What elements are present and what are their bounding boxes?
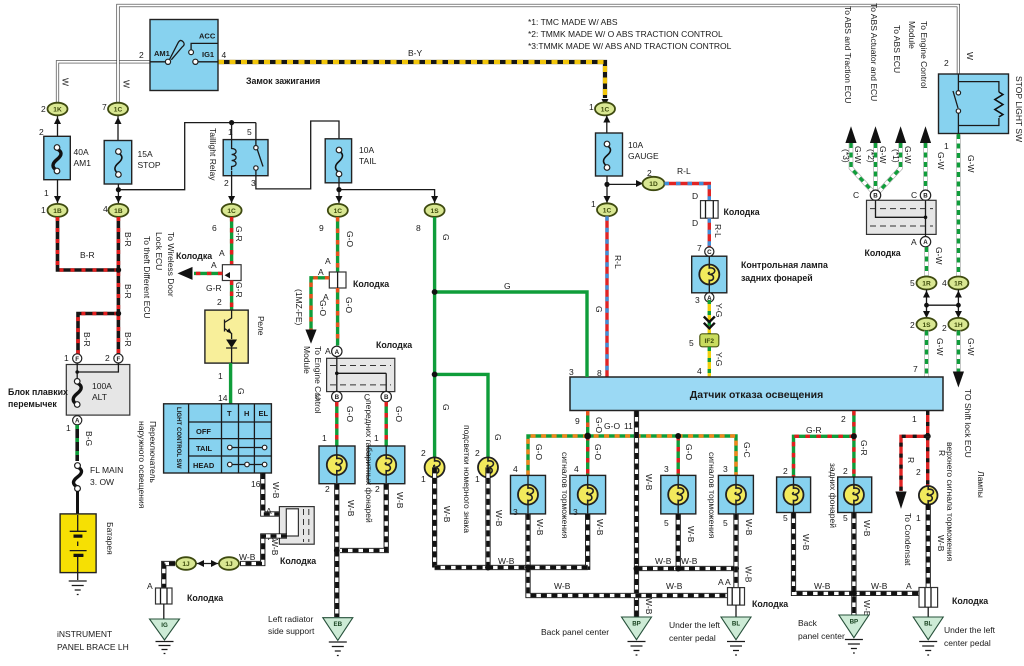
svg-text:B-R: B-R — [82, 332, 92, 347]
wire W-B license lamp2 — [485, 467, 490, 567]
svg-text:4: 4 — [222, 50, 227, 60]
svg-text:G-O: G-O — [593, 444, 603, 460]
kolodka (engine) — [329, 272, 389, 289]
svg-text:3: 3 — [723, 464, 728, 474]
light control switch — [164, 404, 272, 473]
wire G-R 1C6 to kolodka — [230, 217, 233, 265]
wire W-B bus license lamps — [435, 565, 588, 570]
wire G to license lamp1 — [433, 374, 436, 457]
svg-text:1: 1 — [912, 414, 917, 424]
ground EB — [323, 618, 353, 656]
svg-text:W-B: W-B — [681, 556, 698, 566]
svg-text:Back panel center: Back panel center — [541, 627, 609, 637]
svg-text:40A: 40A — [74, 147, 89, 157]
svg-text:2: 2 — [325, 484, 330, 494]
svg-text:EL: EL — [259, 409, 269, 418]
svg-text:G-R: G-R — [859, 440, 869, 456]
svg-text:R-L: R-L — [677, 166, 691, 176]
wire G-O 1C9 down — [336, 217, 339, 272]
svg-text:10A: 10A — [359, 145, 374, 155]
svg-text:6: 6 — [212, 223, 217, 233]
svg-text:16: 16 — [251, 479, 261, 489]
connector 1S pin2 — [910, 318, 937, 331]
svg-text:2: 2 — [647, 168, 652, 178]
svg-text:R: R — [906, 457, 916, 463]
svg-text:1C: 1C — [227, 208, 236, 215]
to-ECU arrows — [845, 126, 856, 143]
svg-text:G-O: G-O — [684, 444, 694, 460]
svg-text:panel center: panel center — [798, 631, 845, 641]
svg-text:Under the left: Under the left — [944, 625, 996, 635]
svg-text:1: 1 — [944, 141, 949, 151]
wire W-B rear lamp1 to bus — [794, 513, 920, 594]
wire W-B rear lamp2 to BP — [851, 513, 856, 616]
svg-text:W-B: W-B — [862, 520, 872, 537]
svg-text:G-R: G-R — [806, 425, 822, 435]
connector 1D — [643, 168, 665, 190]
fuse 10A TAIL — [325, 139, 376, 183]
svg-text:W-B: W-B — [271, 482, 281, 499]
svg-text:1D: 1D — [649, 181, 658, 188]
svg-text:W-B: W-B — [346, 500, 356, 517]
svg-text:G: G — [594, 306, 604, 313]
svg-text:G-C: G-C — [742, 442, 752, 458]
license plate lamp 1 — [421, 448, 445, 484]
svg-text:1H: 1H — [954, 322, 963, 329]
svg-text:G-W: G-W — [878, 146, 888, 163]
svg-text:Back: Back — [798, 618, 818, 628]
svg-text:Under the left: Under the left — [669, 620, 721, 630]
wire Y-G lamp to IF2 — [708, 300, 711, 334]
svg-text:R-L: R-L — [713, 224, 723, 238]
svg-text:1B: 1B — [114, 208, 123, 215]
wire G-R sensor pin2 — [852, 411, 855, 436]
svg-text:перемычек: перемычек — [8, 399, 57, 409]
svg-text:To Condensat: To Condensat — [903, 513, 913, 566]
svg-text:(*2): (*2) — [866, 149, 876, 163]
wire G 1S down — [433, 217, 436, 292]
svg-text:(1MZ-FE): (1MZ-FE) — [294, 289, 304, 326]
F pins — [73, 354, 82, 363]
svg-text:5: 5 — [843, 513, 848, 523]
svg-text:EB: EB — [333, 621, 342, 628]
svg-text:W-B: W-B — [686, 526, 696, 543]
svg-text:G-R: G-R — [206, 283, 222, 293]
svg-text:G: G — [441, 234, 451, 241]
svg-text:подсветки номерного знака: подсветки номерного знака — [462, 425, 472, 533]
svg-text:W-B: W-B — [595, 519, 605, 536]
svg-text:1: 1 — [421, 474, 426, 484]
svg-text:G-W: G-W — [966, 338, 976, 355]
connector 1C pin6 — [212, 204, 242, 233]
svg-text:H: H — [244, 409, 249, 418]
svg-text:G-O: G-O — [594, 417, 604, 433]
connector 1B pin4 — [103, 204, 128, 217]
kolodka (instrument) — [156, 588, 224, 604]
svg-text:Колодка: Колодка — [176, 251, 212, 261]
svg-text:1: 1 — [218, 371, 223, 381]
GAUGE out node to 1D — [607, 176, 640, 203]
wire W-B front lamp1 — [334, 484, 339, 551]
svg-text:передних габаритных фонарей: передних габаритных фонарей — [364, 400, 374, 523]
wire G-R to rear lamp1 — [794, 436, 854, 477]
wire G-W stop sw to 1R — [956, 134, 961, 277]
wire G-W arrow1 — [851, 143, 873, 192]
svg-text:Лампы: Лампы — [976, 471, 986, 498]
svg-text:5: 5 — [723, 518, 728, 528]
svg-text:1R: 1R — [922, 281, 931, 288]
svg-text:2: 2 — [375, 484, 380, 494]
svg-text:сигналов торможения: сигналов торможения — [560, 452, 570, 539]
wire B-G — [75, 425, 79, 461]
connector 1C pin9 — [319, 204, 348, 233]
wire W-B brake lamp4 to kolodka — [733, 514, 738, 588]
svg-text:1J: 1J — [225, 561, 233, 568]
B-Y to 1C pin1 — [589, 102, 615, 115]
svg-text:Left radiator: Left radiator — [268, 614, 314, 624]
wire G-R to rear lamp2 — [852, 436, 855, 477]
wire B-R 1B1 — [58, 217, 117, 270]
svg-text:5: 5 — [664, 518, 669, 528]
wire G-R kolodka to Pene — [230, 281, 233, 311]
kolodka (BL2) — [919, 588, 988, 608]
svg-text:B-R: B-R — [123, 332, 133, 347]
svg-text:D: D — [692, 218, 698, 228]
connector 1C pin7 — [102, 102, 128, 140]
svg-text:1: 1 — [66, 423, 71, 433]
rear lamp 1 — [777, 466, 811, 523]
svg-text:R-L: R-L — [613, 255, 623, 269]
wire G-W 1S to sensor pin7 — [924, 331, 929, 378]
svg-text:G-O: G-O — [394, 406, 404, 422]
svg-text:A: A — [325, 256, 331, 266]
svg-text:W-B: W-B — [498, 556, 515, 566]
svg-text:G-O: G-O — [345, 231, 355, 247]
wire W-B stop lamp to kolodka — [926, 504, 931, 588]
wire G-W arrow4 — [923, 143, 928, 190]
ground BL1 — [721, 617, 751, 655]
svg-text:W-B: W-B — [744, 519, 754, 536]
svg-text:Y-G: Y-G — [714, 303, 724, 317]
svg-text:G-R: G-R — [234, 226, 244, 242]
wire G-W arrow2 — [873, 143, 878, 190]
kolodka A (wireless) — [176, 251, 241, 281]
svg-text:1: 1 — [44, 188, 49, 198]
svg-text:B: B — [335, 394, 340, 401]
svg-text:2: 2 — [139, 50, 144, 60]
svg-text:A: A — [147, 581, 153, 591]
fusible link FL MAIN — [74, 463, 124, 492]
svg-text:STOP LIGHT SW: STOP LIGHT SW — [1014, 76, 1024, 142]
svg-text:1B: 1B — [53, 208, 62, 215]
svg-text:(*3): (*3) — [841, 149, 851, 163]
wire G branch to sensor pin3 — [435, 292, 587, 377]
svg-text:Переключатель: Переключатель — [148, 421, 158, 483]
svg-text:Y-G: Y-G — [714, 352, 724, 366]
svg-text:A: A — [725, 577, 731, 587]
svg-text:To ABS Actuator and ECU: To ABS Actuator and ECU — [869, 3, 879, 101]
svg-text:PANEL BRACE LH: PANEL BRACE LH — [57, 642, 129, 652]
wire fuse AM1 to 1B — [57, 180, 59, 203]
wire W-B brake lamp1 to bus B — [528, 514, 729, 596]
svg-text:Колодка: Колодка — [724, 207, 760, 217]
wire W-B brake lamp2 — [528, 514, 588, 567]
svg-text:2: 2 — [783, 466, 788, 476]
svg-text:W-B: W-B — [535, 519, 545, 536]
svg-text:1K: 1K — [53, 107, 62, 114]
svg-text:To theft Different ECU: To theft Different ECU — [142, 236, 152, 319]
svg-text:задних фонарей: задних фонарей — [741, 273, 813, 283]
svg-text:2: 2 — [217, 297, 222, 307]
connector 1R pin5 — [910, 277, 937, 290]
svg-text:1C: 1C — [601, 107, 610, 114]
wire G-W arrow3 — [879, 143, 901, 192]
svg-text:A: A — [325, 346, 331, 356]
svg-text:2: 2 — [41, 104, 46, 114]
svg-text:G-W: G-W — [966, 155, 976, 172]
wire B-R branch to F1 — [78, 314, 118, 355]
svg-text:2: 2 — [942, 323, 947, 333]
big kolodka (front lamps) — [315, 340, 412, 402]
taillight relay — [208, 123, 268, 188]
brake lamp 4 — [718, 464, 753, 528]
svg-text:Блок плавких: Блок плавких — [8, 387, 68, 397]
svg-text:Контрольная лампа: Контрольная лампа — [741, 260, 828, 270]
svg-text:W: W — [61, 78, 71, 86]
svg-text:W-B: W-B — [666, 581, 683, 591]
svg-text:Реле: Реле — [256, 316, 266, 336]
wire G-O kolodka to A — [336, 288, 339, 346]
svg-text:C: C — [707, 249, 712, 256]
svg-text:7: 7 — [697, 243, 702, 253]
wire G-O B1 to front lamp1 — [335, 402, 338, 446]
svg-text:W-B: W-B — [270, 539, 280, 556]
svg-text:3: 3 — [569, 367, 574, 377]
svg-text:ALT: ALT — [92, 392, 107, 402]
svg-text:G-O: G-O — [604, 421, 620, 431]
svg-text:1S: 1S — [431, 208, 440, 215]
svg-text:1: 1 — [41, 205, 46, 215]
wire W-B 1J to kolodka IG — [164, 564, 175, 589]
svg-text:G: G — [493, 434, 503, 441]
svg-text:наружного освещения: наружного освещения — [137, 421, 147, 509]
wire R-L kolodka to lamp — [708, 218, 711, 247]
svg-text:1R: 1R — [954, 281, 963, 288]
svg-text:4: 4 — [942, 278, 947, 288]
svg-text:C: C — [911, 190, 917, 200]
wire G-O sensor pin9 — [586, 411, 589, 436]
svg-text:5: 5 — [783, 513, 788, 523]
battery — [60, 491, 115, 595]
A pin — [332, 346, 342, 356]
svg-text:W-B: W-B — [239, 552, 256, 562]
svg-text:3: 3 — [573, 507, 578, 517]
svg-text:(*1): (*1) — [891, 149, 901, 163]
kolodka right — [853, 190, 936, 258]
wire G-O bus — [528, 436, 736, 475]
svg-text:HEAD: HEAD — [193, 461, 215, 470]
svg-text:STOP: STOP — [138, 160, 161, 170]
svg-text:Module: Module — [302, 346, 312, 374]
high mount stop lamp — [916, 486, 938, 523]
svg-text:W: W — [122, 80, 132, 88]
svg-text:9: 9 — [319, 223, 324, 233]
svg-text:сигналов торможения: сигналов торможения — [707, 452, 717, 539]
svg-text:3: 3 — [513, 507, 518, 517]
wire G-W kolodka to 1R — [924, 247, 929, 277]
svg-text:To Engine Control: To Engine Control — [919, 21, 929, 89]
node under STOP fuse — [118, 123, 256, 203]
svg-text:B-Y: B-Y — [408, 48, 423, 58]
ground BL2 — [913, 617, 943, 655]
svg-text:100A: 100A — [92, 381, 112, 391]
wire W (1C to stop light sw) — [118, 6, 958, 105]
svg-text:8: 8 — [416, 223, 421, 233]
connector 1S pin8 — [416, 204, 445, 233]
svg-text:Колодка: Колодка — [376, 340, 412, 350]
svg-text:1: 1 — [591, 199, 596, 209]
svg-text:Колодка: Колодка — [353, 279, 389, 289]
svg-text:A: A — [211, 260, 217, 270]
svg-text:C: C — [853, 190, 859, 200]
stop light switch — [939, 58, 1024, 142]
svg-text:G-W: G-W — [936, 152, 946, 169]
svg-text:1: 1 — [916, 513, 921, 523]
svg-text:OFF: OFF — [196, 427, 211, 436]
svg-text:F: F — [117, 356, 121, 363]
svg-text:2: 2 — [916, 467, 921, 477]
svg-text:2: 2 — [421, 448, 426, 458]
A pin — [705, 293, 714, 302]
svg-text:side support: side support — [268, 626, 315, 636]
svg-text:7: 7 — [913, 364, 918, 374]
svg-text:1S: 1S — [922, 322, 931, 329]
svg-text:2: 2 — [910, 320, 915, 330]
svg-text:IF2: IF2 — [705, 338, 715, 345]
svg-text:4: 4 — [697, 366, 702, 376]
svg-text:FL MAIN: FL MAIN — [90, 465, 123, 475]
svg-text:GAUGE: GAUGE — [628, 151, 659, 161]
connector 1B pin1 — [41, 188, 68, 217]
svg-text:4: 4 — [103, 204, 108, 214]
svg-text:BL: BL — [732, 621, 740, 628]
svg-text:Батарея: Батарея — [105, 522, 115, 555]
svg-text:Lock ECU: Lock ECU — [154, 232, 164, 270]
svg-text:1C: 1C — [114, 107, 123, 114]
svg-text:To ABS ECU: To ABS ECU — [892, 25, 902, 73]
svg-text:C: C — [315, 392, 321, 402]
brake lamp 2 — [570, 464, 606, 517]
svg-text:G-W: G-W — [935, 338, 945, 355]
svg-text:Module: Module — [907, 21, 917, 49]
wire R-L 1D to kolodka D — [665, 184, 710, 201]
svg-text:BL: BL — [924, 621, 932, 628]
ignition switch (Замок зажигания) — [150, 20, 218, 91]
svg-text:Колодка: Колодка — [952, 596, 988, 606]
svg-text:G-O: G-O — [318, 300, 328, 316]
wire R sensor pin1 — [926, 411, 929, 436]
svg-text:G-O: G-O — [345, 406, 355, 422]
svg-text:A: A — [923, 239, 928, 246]
svg-text:4: 4 — [574, 464, 579, 474]
front side lamp 2 — [368, 446, 405, 494]
svg-text:9: 9 — [575, 416, 580, 426]
wire W (1K to ignition AM1) — [58, 62, 151, 104]
brake lamp 1 — [511, 464, 546, 517]
TAIL fuse out node — [339, 176, 435, 203]
1C to GAUGE fuse — [606, 115, 608, 135]
svg-text:B-R: B-R — [123, 284, 133, 299]
wire G-R to arrow left — [194, 272, 222, 275]
svg-text:IG1: IG1 — [202, 50, 214, 59]
wire W-B brake lamp3 — [676, 514, 681, 569]
link 1R-1S / 1R-1H — [927, 290, 959, 318]
wire G-O drop lamp3 — [677, 436, 680, 475]
wire W-B to EB ground — [334, 551, 339, 618]
license plate lamp 2 — [475, 448, 498, 484]
wire W-B license lamp1 — [432, 467, 437, 567]
svg-text:4: 4 — [513, 464, 518, 474]
svg-text:G-W: G-W — [903, 146, 913, 163]
svg-text:3. OW: 3. OW — [90, 477, 114, 487]
svg-text:G-O: G-O — [344, 297, 354, 313]
svg-text:A: A — [318, 267, 324, 277]
svg-text:B: B — [384, 394, 389, 401]
svg-text:W-B: W-B — [442, 506, 452, 523]
fusible link block (Блок плавких перемычек) — [8, 363, 130, 415]
svg-text:G-W: G-W — [853, 146, 863, 163]
ground BP1 — [622, 617, 652, 655]
svg-text:2: 2 — [105, 353, 110, 363]
connector 1H pin2 — [942, 318, 968, 333]
connector 1K — [41, 103, 68, 136]
connector 1R pin4 — [942, 277, 968, 290]
svg-text:W-B: W-B — [554, 581, 571, 591]
svg-text:G-O: G-O — [534, 444, 544, 460]
wire G to license lamp2 — [435, 374, 488, 457]
ground BP2 — [839, 615, 869, 653]
svg-text:W-B: W-B — [814, 581, 831, 591]
svg-text:To Wireless Door: To Wireless Door — [166, 232, 176, 297]
kolodka D — [692, 191, 760, 228]
svg-text:1: 1 — [64, 353, 69, 363]
svg-text:*1: TMC MADE W/ ABS: *1: TMC MADE W/ ABS — [528, 17, 618, 27]
wire G-O to engine arrow — [311, 278, 329, 330]
svg-text:1: 1 — [228, 127, 233, 137]
svg-text:1: 1 — [322, 433, 327, 443]
svg-text:G-W: G-W — [934, 247, 944, 264]
kolodka (light sw) — [266, 506, 316, 566]
svg-text:W-B: W-B — [871, 581, 888, 591]
svg-text:задних фонарей: задних фонарей — [828, 463, 838, 528]
svg-text:2: 2 — [841, 414, 846, 424]
svg-text:center pedal: center pedal — [944, 638, 991, 648]
svg-text:A: A — [266, 506, 272, 516]
svg-text:F: F — [75, 356, 79, 363]
svg-text:7: 7 — [102, 102, 107, 112]
svg-text:AM1: AM1 — [154, 49, 170, 58]
svg-text:3: 3 — [664, 464, 669, 474]
svg-text:W-B: W-B — [862, 600, 872, 617]
rear lamp 2 — [838, 466, 872, 523]
relay Pene — [205, 310, 266, 363]
svg-text:1: 1 — [475, 474, 480, 484]
svg-text:iNSTRUMENT: iNSTRUMENT — [57, 629, 112, 639]
wire W-B bus right — [637, 566, 737, 571]
svg-text:*3:TMMK MADE W/ ABS AND TRACTI: *3:TMMK MADE W/ ABS AND TRACTION CONTROL — [528, 41, 732, 51]
svg-text:1J: 1J — [182, 561, 190, 568]
svg-text:A: A — [323, 292, 329, 302]
